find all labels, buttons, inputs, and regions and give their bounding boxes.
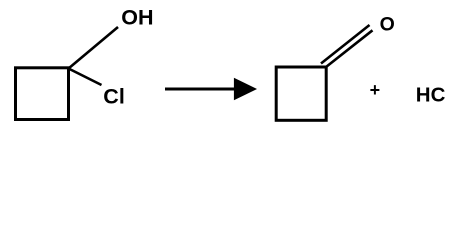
svg-text:+: + [370,80,381,100]
svg-text:HC: HC [416,84,446,107]
svg-text:O: O [380,14,395,36]
svg-text:Cl: Cl [103,84,125,108]
cyclobutanone ring (product) [276,67,326,120]
C=O double bond line 1 [326,30,373,67]
bond C1-OH [69,27,119,69]
svg-text:OH: OH [121,6,153,30]
bond C1-Cl [69,69,102,86]
cyclobutane ring (reactant) [16,68,69,120]
reaction arrow shaft [165,88,237,91]
C=O double bond line 2 [321,25,370,64]
reaction arrow head [234,78,257,101]
